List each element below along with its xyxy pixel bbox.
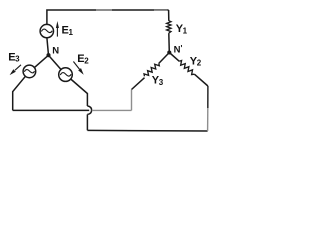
wire N to E3 <box>34 55 48 67</box>
wire top bus from E1 to Y1 <box>47 10 169 25</box>
wire right vertical to Y2 <box>207 86 209 131</box>
admittance Y3 <box>143 62 160 78</box>
admittance Y1 <box>167 21 171 33</box>
wire N to E2 <box>49 55 62 69</box>
wire right loop gray vertical <box>131 90 133 111</box>
source E3 <box>23 65 36 78</box>
source E2 <box>59 68 73 82</box>
label E1 <box>62 25 74 37</box>
label E3 <box>8 51 20 63</box>
wire Y1 top <box>168 10 170 21</box>
label Y2 <box>190 55 202 67</box>
admittance Y2 <box>178 60 196 76</box>
wire right loop gray horizontal to hop <box>92 109 132 111</box>
label N' <box>174 44 183 56</box>
wire Y1 to N' <box>168 33 171 52</box>
label E2 <box>77 53 89 65</box>
wire E3 to left corner <box>13 76 26 110</box>
source E1 <box>40 24 53 37</box>
wire hop over bottom-left wire <box>87 106 91 114</box>
wire bottom bus <box>87 129 207 132</box>
node N <box>46 53 50 57</box>
arrow E1 <box>56 21 59 37</box>
node N' <box>167 50 171 54</box>
wire diagonal to Y2 <box>194 74 208 86</box>
arrow E2 <box>73 62 83 75</box>
label Y1 <box>176 23 188 35</box>
wire bottom left <box>13 109 90 111</box>
wire E2 to hop <box>71 79 88 106</box>
wire E2 down to bottom bus <box>86 114 88 130</box>
wire Y3 to corner <box>132 78 145 90</box>
wire E1 to node N <box>47 38 49 55</box>
label N <box>52 45 59 56</box>
arrow E3 <box>10 65 21 75</box>
wire N' to Y3 <box>159 53 170 64</box>
wire Y2 to node N' <box>169 53 179 62</box>
label Y3 <box>152 75 164 87</box>
svg-text:N: N <box>52 45 59 56</box>
